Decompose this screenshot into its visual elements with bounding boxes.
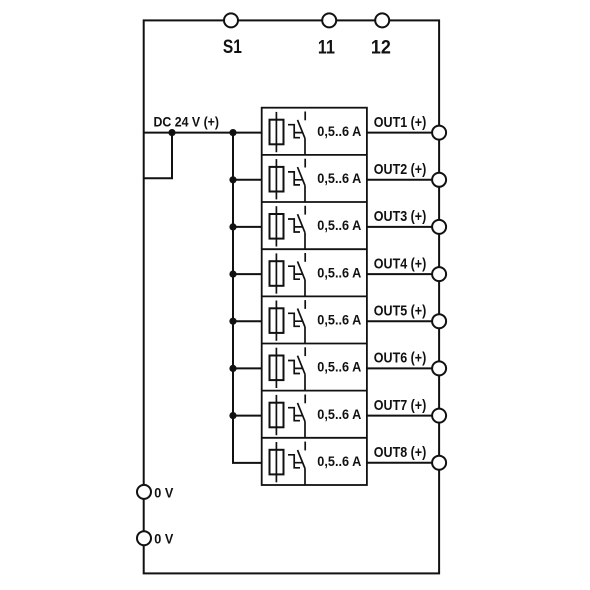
svg-text:0,5..6 A: 0,5..6 A xyxy=(317,359,361,375)
svg-text:0,5..6 A: 0,5..6 A xyxy=(317,311,361,327)
svg-text:0 V: 0 V xyxy=(154,531,174,547)
svg-text:DC 24 V (+): DC 24 V (+) xyxy=(154,113,220,129)
svg-text:0,5..6 A: 0,5..6 A xyxy=(317,264,361,280)
svg-text:OUT3 (+): OUT3 (+) xyxy=(374,208,427,225)
svg-text:OUT8 (+): OUT8 (+) xyxy=(374,444,427,461)
svg-text:0,5..6 A: 0,5..6 A xyxy=(317,453,361,469)
svg-text:OUT6 (+): OUT6 (+) xyxy=(374,350,427,367)
svg-text:OUT2 (+): OUT2 (+) xyxy=(374,161,427,178)
svg-text:11: 11 xyxy=(318,36,335,58)
svg-text:12: 12 xyxy=(371,36,391,58)
svg-text:OUT5 (+): OUT5 (+) xyxy=(374,302,427,319)
svg-text:S1: S1 xyxy=(223,36,242,58)
svg-text:0 V: 0 V xyxy=(154,484,174,500)
svg-text:OUT4 (+): OUT4 (+) xyxy=(374,255,427,272)
svg-text:0,5..6 A: 0,5..6 A xyxy=(317,406,361,422)
svg-text:0,5..6 A: 0,5..6 A xyxy=(317,123,361,139)
svg-text:OUT1 (+): OUT1 (+) xyxy=(374,114,427,131)
svg-text:OUT7 (+): OUT7 (+) xyxy=(374,397,427,414)
svg-text:0,5..6 A: 0,5..6 A xyxy=(317,170,361,186)
svg-text:0,5..6 A: 0,5..6 A xyxy=(317,217,361,233)
